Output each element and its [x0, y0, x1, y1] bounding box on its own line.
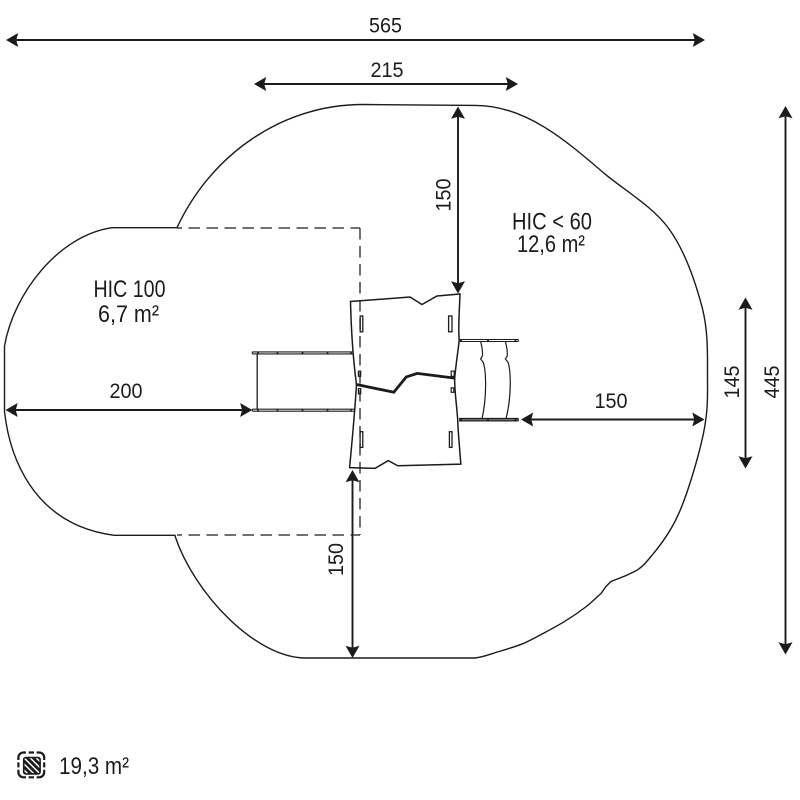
slot mid upper-left — [358, 371, 360, 376]
svg-text:200: 200 — [110, 380, 143, 403]
dim 215 line — [254, 77, 518, 91]
svg-text:6,7 m²: 6,7 m² — [98, 301, 159, 328]
svg-text:150: 150 — [433, 179, 456, 212]
slide right top rail — [459, 340, 518, 342]
svg-text:445: 445 — [761, 366, 784, 399]
slot upper left — [360, 316, 363, 332]
area icon hatched square — [10, 756, 57, 779]
slot upper right — [449, 316, 452, 332]
slide wavy side right — [505, 342, 510, 418]
slot mid upper-right — [451, 371, 454, 376]
slot mid lower-left — [358, 389, 360, 394]
panel upper — [351, 294, 461, 392]
dim 150 right line — [521, 413, 705, 427]
ladder left top rail — [252, 352, 354, 354]
svg-text:145: 145 — [721, 366, 744, 399]
slot mid lower-right — [451, 388, 454, 392]
area icon dashed frame — [18, 753, 44, 778]
panel seam — [357, 373, 455, 392]
slide wavy side left — [481, 342, 486, 418]
svg-text:12,6 m²: 12,6 m² — [517, 231, 585, 258]
svg-text:215: 215 — [371, 59, 404, 82]
dim 145 vertical — [739, 298, 753, 469]
svg-text:150: 150 — [595, 390, 628, 413]
dashed zone boundary top — [177, 227, 360, 229]
slot lower right — [449, 432, 452, 448]
ladder left crossbar — [256, 354, 258, 409]
svg-text:19,3 m²: 19,3 m² — [59, 753, 129, 780]
svg-text:150: 150 — [325, 543, 348, 576]
dim 150 top vertical — [451, 107, 465, 294]
svg-text:565: 565 — [369, 15, 402, 38]
dashed centerline through panel — [359, 228, 361, 535]
dim 150 bottom vertical — [346, 470, 360, 658]
slide right bottom rail — [459, 418, 518, 421]
ladder left bottom rail — [252, 409, 354, 411]
slot lower left — [360, 432, 363, 448]
safety zone outline — [5, 105, 708, 659]
panel lower — [350, 373, 461, 468]
dim 200 line — [6, 403, 253, 417]
dim 445 vertical — [779, 106, 793, 655]
dim 565 line — [6, 33, 705, 47]
svg-text:HIC 100: HIC 100 — [94, 276, 166, 303]
dashed zone boundary bottom — [177, 534, 360, 536]
